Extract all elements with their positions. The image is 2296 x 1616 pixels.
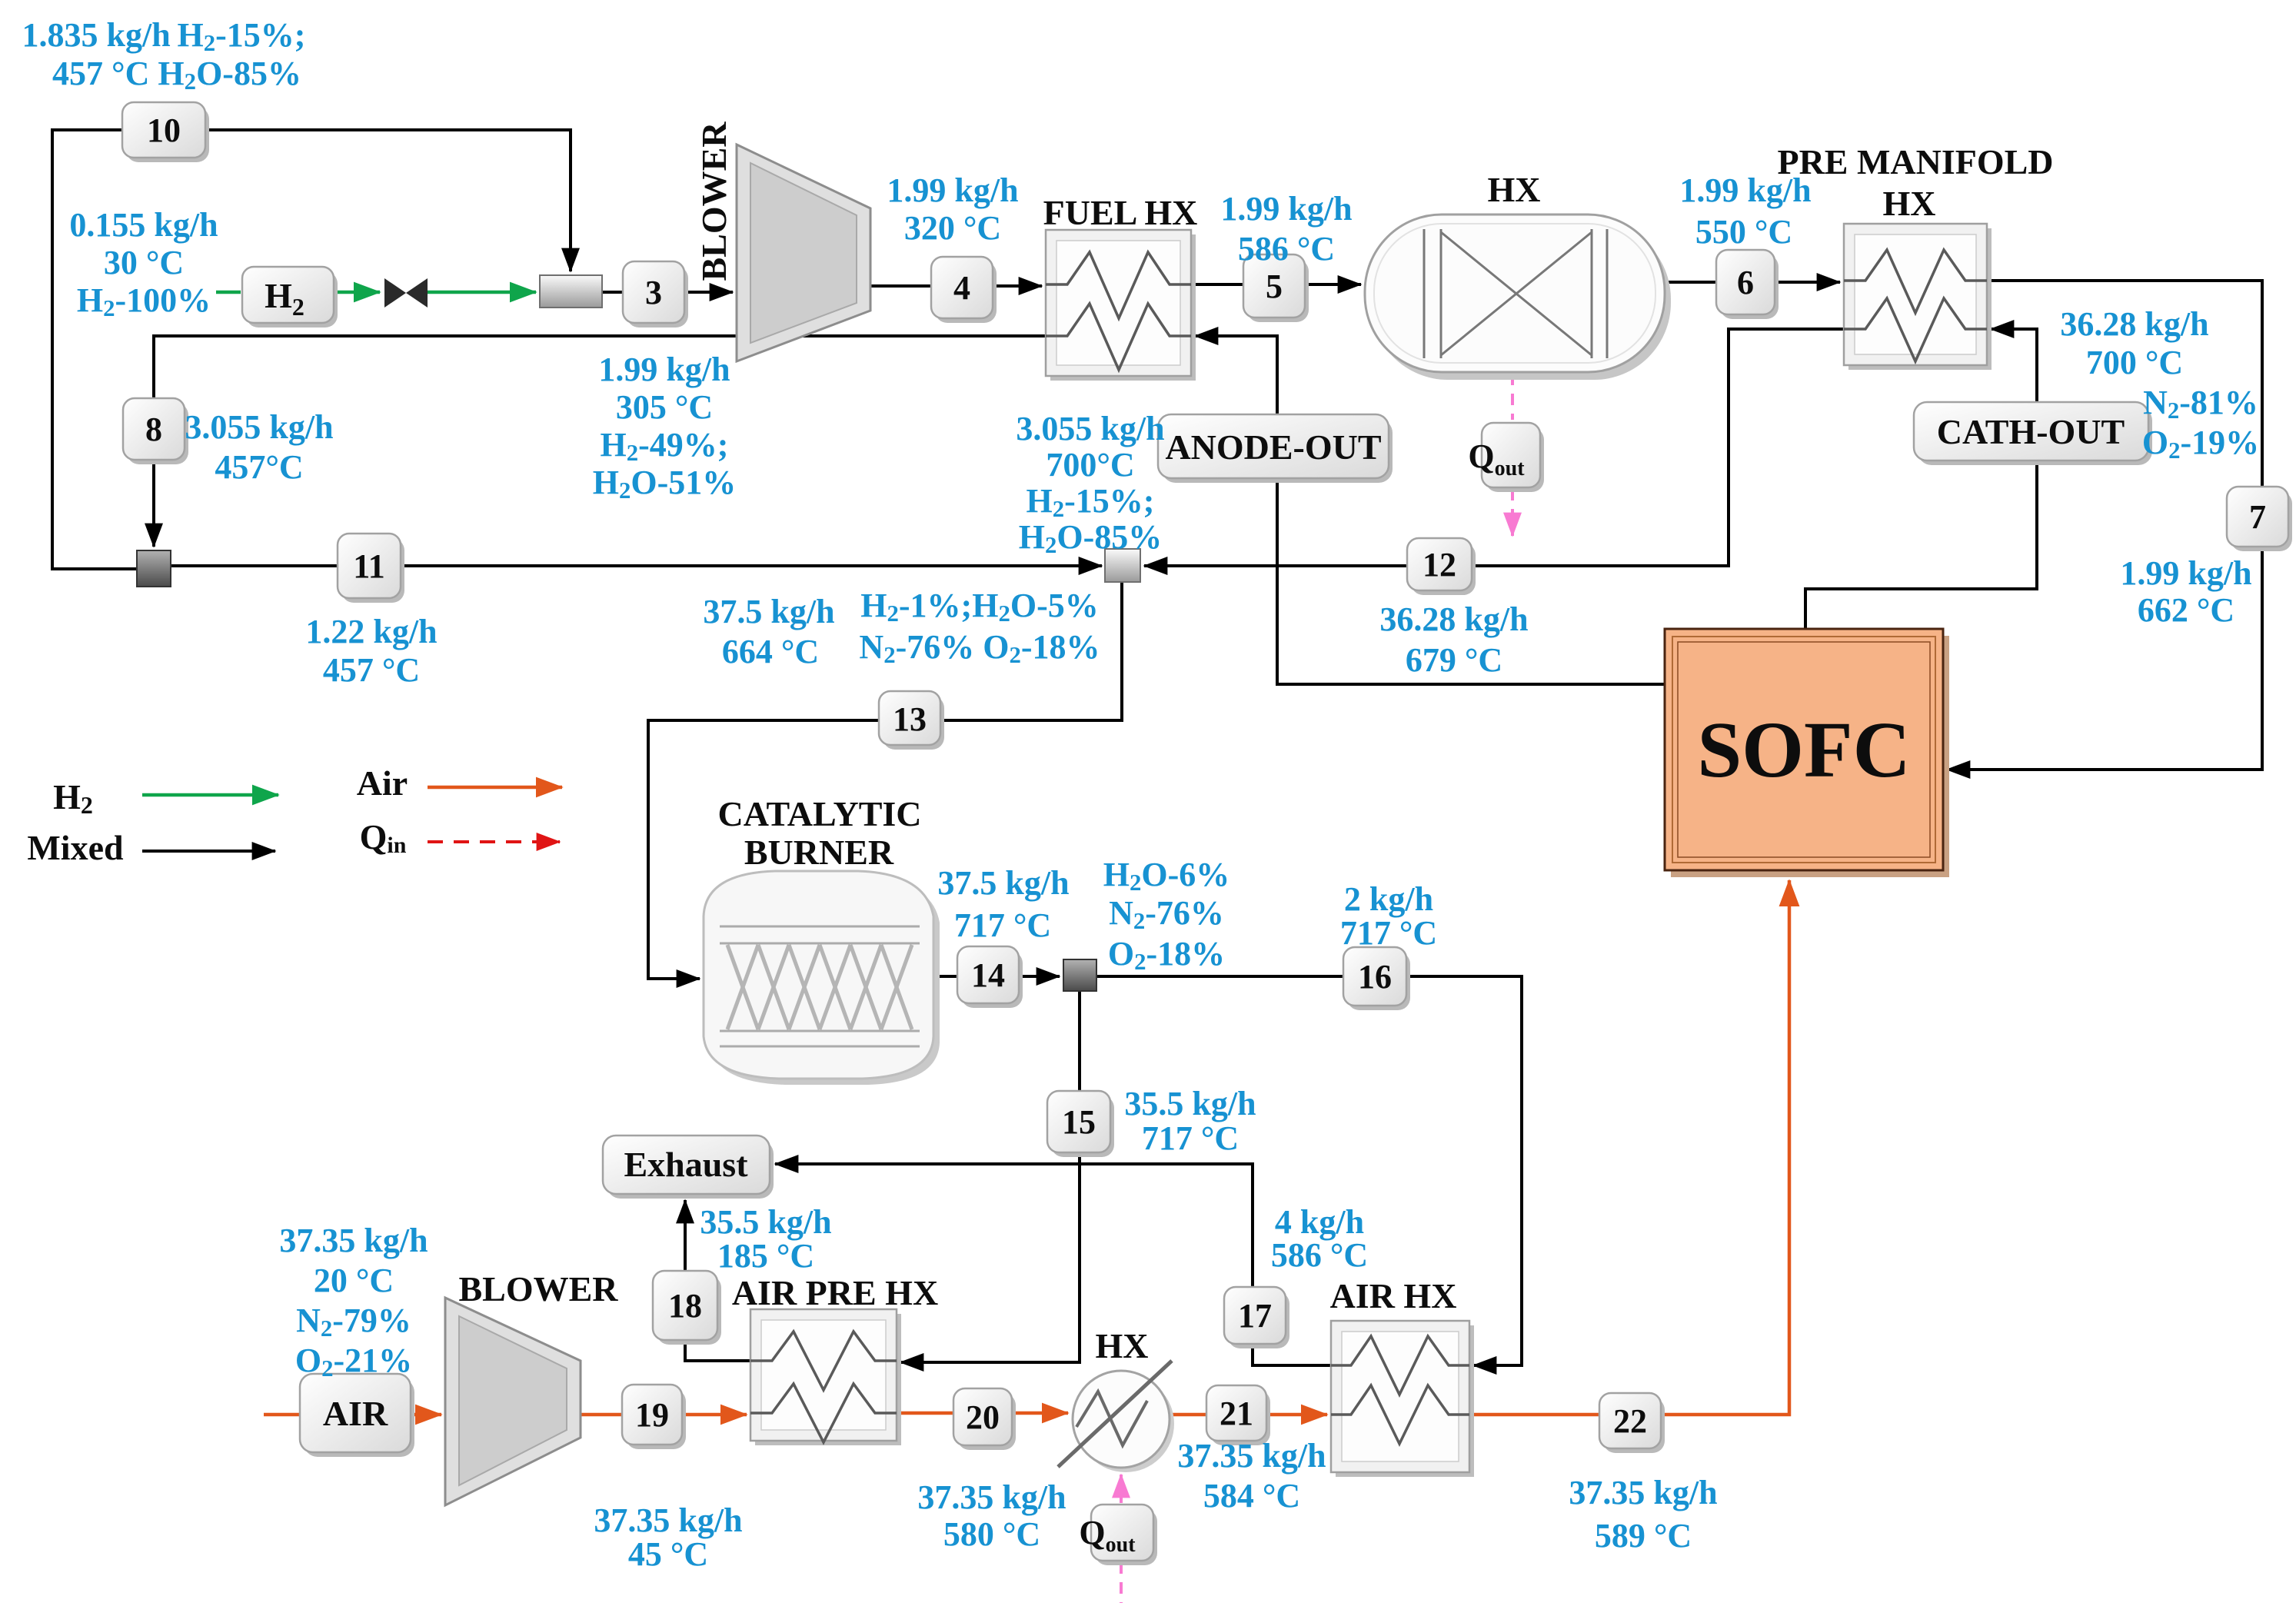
svg-text:662 °C: 662 °C [2138, 591, 2234, 629]
heat exchanger FUEL HX [1046, 230, 1196, 381]
wire FUEL HX lower coil out to splitter S1 (stream 8) [154, 336, 1046, 547]
wire splitter S2 down to AIR PRE HX top coil (stream 15) [900, 991, 1080, 1362]
wire blower 2 to AIR PRE HX (stream 19) [579, 1413, 747, 1417]
wire HX cooler to AIR HX (stream 21) [1170, 1413, 1327, 1417]
svg-text:H2: H2 [53, 777, 93, 819]
stream plate 21 [1206, 1385, 1270, 1445]
svg-text:13: 13 [893, 700, 927, 738]
wire AIR PRE HX to HX cooler (stream 20) [897, 1412, 1068, 1415]
label box Exhaust [603, 1136, 774, 1199]
wire PRE MANIFOLD HX top out to SOFC right (stream 7) [1947, 281, 2262, 770]
wire SOFC top to PRE MANIFOLD HX lower coil (cath-out) [1805, 329, 2037, 629]
svg-text:700 °C: 700 °C [2086, 344, 2183, 381]
svg-text:7: 7 [2249, 498, 2266, 536]
svg-text:6: 6 [1737, 264, 1754, 301]
wire splitter S2 to AIR HX top coil (stream 16) [1096, 976, 1522, 1365]
stream plate 19 [622, 1385, 686, 1449]
svg-text:3.055 kg/h: 3.055 kg/h [1016, 410, 1164, 447]
heat exchanger AIR PRE HX [750, 1309, 901, 1445]
hydrogen feed wires (green) [216, 291, 536, 294]
wire valve to mixer M1 [428, 291, 536, 294]
svg-text:37.35 kg/h: 37.35 kg/h [279, 1222, 428, 1259]
wire AIR box to blower 2 [411, 1413, 441, 1417]
svg-text:H2O-85%: H2O-85% [1019, 518, 1163, 558]
svg-text:ANODE-OUT: ANODE-OUT [1165, 427, 1381, 467]
stream plate 3 [623, 261, 688, 328]
svg-text:37.5 kg/h: 37.5 kg/h [703, 593, 834, 630]
wire Qout2 arrow up into HX cooler [1120, 1475, 1123, 1503]
wire vessel HX to PRE MANIFOLD HX (stream 6) [1665, 281, 1840, 284]
svg-text:15: 15 [1062, 1103, 1096, 1141]
svg-text:Air: Air [357, 763, 408, 803]
svg-text:35.5 kg/h: 35.5 kg/h [1124, 1085, 1256, 1122]
wire H2 box to valve [334, 291, 380, 294]
wire splitter S1 to mixer M2 (stream 11) [171, 564, 1102, 567]
svg-text:Qin: Qin [360, 817, 407, 858]
legend Air arrow [428, 786, 562, 790]
svg-text:37.35 kg/h: 37.35 kg/h [1569, 1474, 1717, 1511]
svg-text:586 °C: 586 °C [1238, 230, 1335, 268]
svg-text:CATH-OUT: CATH-OUT [1937, 412, 2125, 451]
stream plate 6 [1716, 250, 1779, 319]
svg-text:Exhaust: Exhaust [624, 1145, 748, 1184]
wire air inlet [264, 1413, 300, 1417]
svg-text:HX: HX [1488, 170, 1541, 209]
svg-text:457°C: 457°C [215, 448, 303, 486]
svg-text:45 °C: 45 °C [628, 1535, 708, 1573]
svg-text:AIR HX: AIR HX [1330, 1276, 1457, 1315]
svg-text:586 °C: 586 °C [1271, 1236, 1368, 1274]
splitter S1 [137, 550, 171, 587]
stream plate 16 [1343, 947, 1410, 1010]
svg-text:1.22 kg/h: 1.22 kg/h [305, 613, 437, 650]
svg-text:22: 22 [1613, 1402, 1647, 1440]
heat exchanger PRE MANIFOLD HX [1844, 224, 1992, 370]
svg-text:Mixed: Mixed [27, 828, 124, 867]
svg-text:589 °C: 589 °C [1595, 1517, 1692, 1554]
stream plate 18 [653, 1271, 721, 1345]
svg-text:457 °C: 457 °C [323, 651, 420, 689]
svg-text:185 °C: 185 °C [717, 1237, 814, 1275]
svg-text:PRE MANIFOLD: PRE MANIFOLD [1777, 142, 2053, 181]
legend Mixed arrow [142, 850, 275, 853]
svg-text:580 °C: 580 °C [943, 1515, 1040, 1553]
svg-text:37.35 kg/h: 37.35 kg/h [594, 1501, 742, 1539]
label box Qout1 [1468, 423, 1544, 492]
svg-text:1.99 kg/h: 1.99 kg/h [1220, 190, 1352, 228]
svg-text:O2-19%: O2-19% [2142, 424, 2259, 464]
svg-text:20 °C: 20 °C [314, 1262, 394, 1299]
splitter S2 [1063, 959, 1096, 991]
svg-text:36.28 kg/h: 36.28 kg/h [2060, 305, 2208, 343]
wire burner out to splitter S2 (stream 14) [935, 975, 1060, 978]
svg-text:8: 8 [145, 411, 162, 448]
wire Qout1 from vessel HX [1511, 374, 1514, 420]
stream plate 4 [931, 257, 997, 323]
svg-text:21: 21 [1220, 1395, 1253, 1432]
svg-text:0.155 kg/h: 0.155 kg/h [69, 206, 218, 244]
svg-text:N2-81%: N2-81% [2143, 384, 2258, 424]
svg-text:717 °C: 717 °C [954, 906, 1051, 944]
svg-text:16: 16 [1358, 958, 1392, 996]
wire mixer M2 to catalytic burner (stream 13) [648, 582, 1122, 979]
stream plate 20 [953, 1388, 1016, 1450]
svg-text:19: 19 [635, 1396, 669, 1434]
svg-text:1.99 kg/h: 1.99 kg/h [887, 171, 1018, 209]
label box CATH-OUT [1914, 402, 2152, 465]
svg-text:717 °C: 717 °C [1340, 914, 1437, 952]
mixer M2 [1105, 549, 1140, 582]
wire mixer M1 out to blower 1 (stream 3) [602, 291, 733, 294]
SOFC stack [1665, 629, 1949, 877]
svg-text:3.055 kg/h: 3.055 kg/h [185, 408, 333, 446]
stream plate 12 [1407, 538, 1476, 595]
svg-text:700°C: 700°C [1046, 446, 1134, 484]
svg-text:717 °C: 717 °C [1142, 1119, 1239, 1157]
wire AIR HX to SOFC bottom (stream 22) [1469, 880, 1789, 1415]
svg-text:HX: HX [1883, 184, 1936, 223]
svg-text:14: 14 [971, 956, 1005, 994]
svg-text:18: 18 [668, 1287, 702, 1325]
legend Qin arrow [428, 840, 560, 843]
catalytic burner vessel [704, 871, 940, 1085]
label box Qout2 [1079, 1505, 1157, 1565]
svg-text:457 °C H2O-85%: 457 °C H2O-85% [52, 55, 301, 95]
svg-text:37.35 kg/h: 37.35 kg/h [1177, 1437, 1326, 1475]
svg-text:1.99 kg/h: 1.99 kg/h [598, 351, 730, 388]
svg-text:664 °C: 664 °C [722, 633, 819, 670]
stream plate 5 [1243, 254, 1309, 322]
stream plate 17 [1224, 1287, 1289, 1348]
blower B2 (air) [445, 1298, 581, 1505]
svg-text:H2-49%;: H2-49%; [601, 426, 729, 466]
stream plate 13 [879, 691, 944, 750]
svg-text:550 °C: 550 °C [1695, 213, 1792, 251]
svg-text:37.35 kg/h: 37.35 kg/h [917, 1478, 1066, 1516]
blower B1 (fuel) [737, 145, 870, 361]
label box ANODE-OUT [1158, 414, 1393, 483]
svg-text:H2-1%;H2O-5%: H2-1%;H2O-5% [860, 587, 1098, 627]
svg-text:BLOWER: BLOWER [694, 121, 734, 281]
wire stream 10 recycle: splitter left up and over to mixer M1 [52, 130, 571, 569]
svg-text:AIR: AIR [323, 1394, 388, 1433]
svg-text:679 °C: 679 °C [1406, 641, 1502, 679]
svg-text:H2-100%: H2-100% [77, 281, 211, 321]
valve V1 [384, 278, 428, 308]
svg-text:N2-76% O2-18%: N2-76% O2-18% [859, 628, 1100, 668]
stream plate 15 [1047, 1091, 1114, 1157]
svg-text:AIR PRE HX: AIR PRE HX [732, 1273, 938, 1312]
stream plate 22 [1599, 1393, 1665, 1453]
stream plate 10 [122, 102, 209, 162]
stream plate 8 [123, 398, 188, 464]
svg-text:4: 4 [953, 269, 970, 307]
wire Qout1 arrow down [1511, 489, 1514, 536]
vessel HX (horizontal drum) [1365, 214, 1671, 380]
label box AIR [300, 1374, 414, 1457]
svg-text:H2O-6%: H2O-6% [1103, 856, 1230, 896]
wire blower 1 out to FUEL HX (stream 4) [870, 284, 1042, 288]
svg-text:O2-21%: O2-21% [295, 1342, 412, 1382]
wire Qout2 below box [1120, 1562, 1123, 1603]
svg-text:H2-15%;: H2-15%; [1027, 482, 1155, 522]
svg-text:H2O-51%: H2O-51% [593, 464, 737, 504]
svg-text:N2-76%: N2-76% [1109, 894, 1224, 934]
svg-text:35.5 kg/h: 35.5 kg/h [700, 1203, 831, 1241]
stream plate 11 [338, 534, 404, 603]
mixer M1 [540, 275, 602, 308]
heat exchanger AIR HX [1331, 1321, 1474, 1477]
svg-text:N2-79%: N2-79% [296, 1302, 411, 1342]
stream plate 7 [2227, 487, 2292, 551]
wire PRE MANIFOLD HX lower coil out to mixer M2 (stream 12) [1144, 329, 1844, 566]
air wires (orange) [264, 880, 1789, 1415]
wire SOFC left to FUEL HX lower coil (anode-out) [1195, 336, 1665, 684]
svg-text:20: 20 [966, 1398, 1000, 1436]
svg-text:17: 17 [1238, 1297, 1272, 1335]
svg-text:CATALYTIC: CATALYTIC [718, 794, 922, 833]
svg-text:1.835 kg/h H2-15%;: 1.835 kg/h H2-15%; [22, 16, 306, 56]
svg-text:SOFC: SOFC [1697, 706, 1910, 794]
svg-text:FUEL HX: FUEL HX [1043, 193, 1198, 232]
svg-text:37.5 kg/h: 37.5 kg/h [937, 864, 1069, 902]
svg-text:36.28 kg/h: 36.28 kg/h [1379, 600, 1528, 638]
svg-text:4 kg/h: 4 kg/h [1275, 1203, 1364, 1241]
legend H2 arrow [142, 793, 278, 797]
wire AIR PRE HX top coil out to Exhaust (stream 18) [685, 1200, 750, 1361]
svg-text:O2-18%: O2-18% [1108, 935, 1225, 975]
svg-text:320 °C: 320 °C [904, 209, 1001, 247]
HX cooler (circle) [1058, 1361, 1174, 1472]
label box H2 [242, 267, 338, 328]
heat flow wires (pink dashed) [1121, 374, 1512, 1603]
svg-text:5: 5 [1266, 268, 1283, 305]
svg-text:BURNER: BURNER [744, 833, 894, 872]
svg-text:11: 11 [353, 547, 385, 585]
svg-text:12: 12 [1423, 546, 1456, 584]
wire H2 inlet [216, 291, 241, 294]
svg-text:2 kg/h: 2 kg/h [1344, 880, 1433, 918]
stream plate 14 [957, 946, 1023, 1008]
svg-text:305 °C: 305 °C [616, 388, 713, 426]
svg-text:10: 10 [147, 111, 181, 149]
svg-text:BLOWER: BLOWER [458, 1269, 618, 1308]
wire FUEL HX to vessel HX (stream 5) [1191, 283, 1361, 286]
svg-text:584 °C: 584 °C [1203, 1477, 1300, 1515]
svg-text:30 °C: 30 °C [104, 244, 184, 281]
svg-text:3: 3 [645, 274, 662, 311]
svg-text:HX: HX [1096, 1326, 1149, 1365]
wire AIR HX top coil out to Exhaust (stream 17) [775, 1164, 1331, 1365]
svg-text:1.99 kg/h: 1.99 kg/h [2120, 554, 2251, 592]
